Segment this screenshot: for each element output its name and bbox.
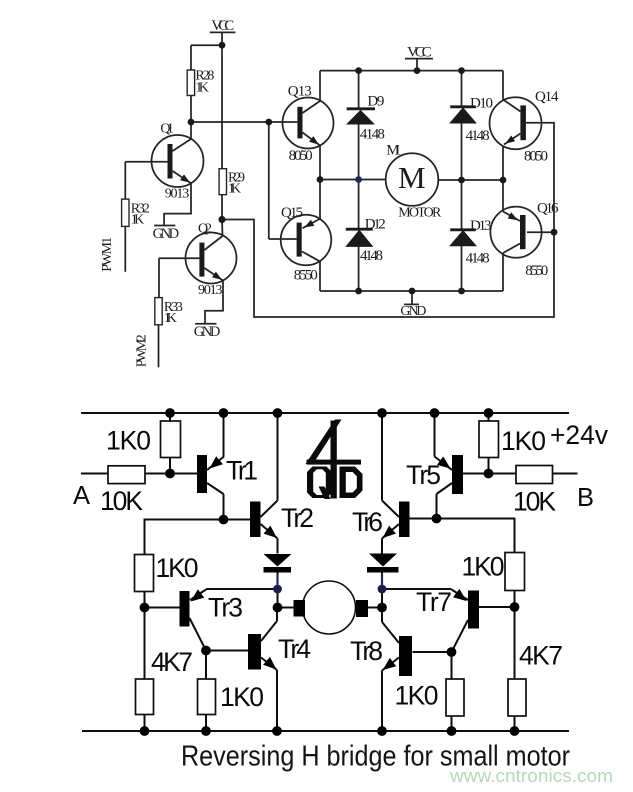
svg-text:1K: 1K — [131, 213, 145, 228]
svg-text:Q14: Q14 — [535, 89, 559, 105]
svg-text:VCC: VCC — [211, 18, 234, 34]
svg-text:1K0: 1K0 — [501, 426, 546, 456]
svg-text:M1: M1 — [386, 143, 401, 159]
svg-text:10K: 10K — [100, 486, 143, 516]
svg-text:1K: 1K — [195, 81, 209, 96]
svg-text:10K: 10K — [513, 487, 556, 517]
svg-text:Tr7: Tr7 — [416, 587, 452, 617]
svg-text:Q13: Q13 — [288, 83, 312, 99]
svg-text:Tr8: Tr8 — [350, 636, 383, 666]
svg-text:8050: 8050 — [289, 148, 313, 164]
svg-text:D12: D12 — [365, 216, 386, 232]
svg-text:1K0: 1K0 — [462, 552, 505, 582]
svg-text:4148: 4148 — [466, 128, 490, 144]
svg-text:Tr4: Tr4 — [278, 634, 311, 664]
svg-text:VCC: VCC — [407, 45, 432, 61]
svg-text:A: A — [73, 482, 90, 510]
svg-text:Q16: Q16 — [537, 201, 559, 217]
svg-text:+24v: +24v — [550, 420, 609, 450]
svg-text:4148: 4148 — [360, 126, 385, 142]
svg-text:Q1: Q1 — [160, 122, 174, 137]
svg-text:8050: 8050 — [524, 148, 548, 164]
svg-text:D13: D13 — [470, 218, 492, 234]
svg-text:Tr2: Tr2 — [281, 503, 314, 533]
svg-text:8550: 8550 — [525, 263, 548, 279]
svg-text:PWM1: PWM1 — [100, 237, 115, 272]
svg-text:www.cntronics.com: www.cntronics.com — [449, 765, 613, 786]
svg-text:1K0: 1K0 — [395, 681, 439, 711]
svg-text:8550: 8550 — [294, 267, 318, 283]
svg-text:4K7: 4K7 — [151, 647, 193, 677]
svg-text:Tr3: Tr3 — [208, 593, 243, 623]
svg-text:Q15: Q15 — [281, 205, 303, 221]
svg-text:D10: D10 — [470, 96, 493, 112]
svg-text:9013: 9013 — [165, 187, 190, 202]
svg-text:4K7: 4K7 — [519, 641, 563, 671]
svg-text:GND: GND — [153, 226, 180, 242]
svg-text:Tr5: Tr5 — [406, 460, 441, 490]
svg-text:1K0: 1K0 — [106, 426, 151, 456]
svg-text:Q2: Q2 — [198, 222, 212, 237]
svg-text:1K0: 1K0 — [220, 682, 264, 712]
svg-text:GND: GND — [400, 304, 426, 319]
svg-text:4148: 4148 — [360, 248, 383, 264]
svg-text:9013: 9013 — [198, 283, 223, 298]
svg-text:GND: GND — [194, 324, 221, 340]
svg-text:1K0: 1K0 — [156, 553, 199, 583]
svg-text:M: M — [398, 160, 426, 195]
svg-text:PWM2: PWM2 — [135, 334, 150, 367]
svg-text:B: B — [577, 484, 594, 512]
svg-text:MOTOR: MOTOR — [398, 205, 442, 220]
svg-text:D9: D9 — [367, 94, 384, 110]
svg-text:4148: 4148 — [466, 251, 490, 267]
svg-text:Tr6: Tr6 — [352, 507, 383, 537]
svg-text:Tr1: Tr1 — [226, 456, 258, 486]
svg-text:1K: 1K — [228, 182, 241, 197]
svg-text:1K: 1K — [164, 311, 177, 326]
